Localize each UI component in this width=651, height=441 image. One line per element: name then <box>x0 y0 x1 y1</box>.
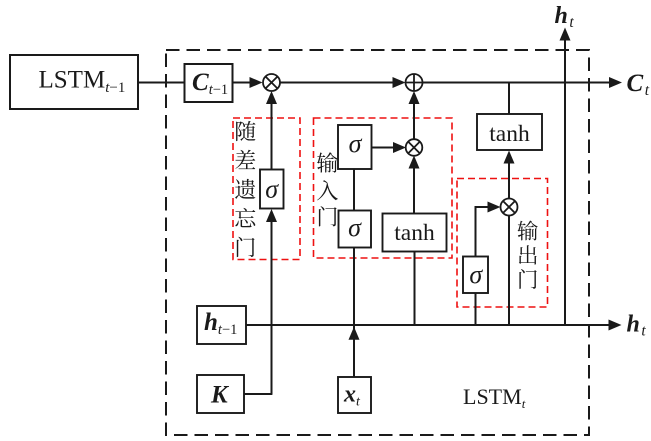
wire K junction up to forget sigma (arrow into sigma) <box>266 209 277 394</box>
box x_t <box>338 377 371 413</box>
box LSTM_{t-1} <box>10 55 138 109</box>
wire h line to h_t output (arrow) <box>246 320 622 331</box>
box tanh top <box>477 114 542 150</box>
wire output multiplier down to h line <box>508 216 510 326</box>
wire C_{t-1} to forget multiplier (arrow) <box>233 77 263 88</box>
svg-text:LSTMt: LSTMt <box>463 384 526 411</box>
svg-text:σ: σ <box>348 213 362 242</box>
box K <box>197 375 244 413</box>
wire tanh up to input multiplier (arrow) <box>409 156 420 214</box>
box sigma forget gate <box>260 170 284 209</box>
wire input tanh down to h line <box>414 251 416 325</box>
red dashed box: input gate (输入门) <box>314 118 453 258</box>
wire adder to C_t output (arrow) <box>423 77 623 88</box>
wire x_t up through h line to sigma2 (arrow at h line) <box>349 247 360 377</box>
label 随差遗忘门 (residual forget gate, vertical) <box>235 121 255 257</box>
multiplier node forget gate (⊗) <box>263 74 280 91</box>
wire output sigma up and right to output multiplier (arrow) <box>476 202 501 257</box>
adder node (⊕) <box>406 74 423 91</box>
wire output sigma down to h line <box>475 293 477 326</box>
wire sigma2 to sigma1 <box>353 169 355 211</box>
multiplier node output gate (⊗) <box>501 199 518 216</box>
red dashed box: residual forget gate (随差遗忘门) <box>233 118 300 260</box>
wire C line junction down to top tanh <box>508 83 510 115</box>
wire sigma1 to input multiplier (arrow) <box>371 142 406 153</box>
box tanh input gate <box>383 214 447 252</box>
box sigma output gate <box>463 257 488 294</box>
svg-text:K: K <box>210 382 230 409</box>
box h_{t-1} <box>197 306 246 344</box>
svg-text:σ: σ <box>349 129 363 158</box>
svg-text:tanh: tanh <box>489 121 530 147</box>
wire output multiplier up to top tanh (arrow) <box>504 151 515 199</box>
wire forget multiplier to adder (arrow) <box>280 77 406 88</box>
box sigma2 input gate <box>339 211 372 248</box>
wire h_t output vertical (arrow up) <box>560 28 571 326</box>
label 输入门 (input gate, vertical) <box>317 152 338 226</box>
label 输出门 (output gate, vertical) <box>517 220 537 288</box>
box C_{t-1} <box>185 64 233 102</box>
wire LSTM_{t-1} to C_{t-1} <box>138 82 185 84</box>
red dashed box: output gate (输出门) <box>457 179 548 308</box>
svg-text:σ: σ <box>265 175 279 204</box>
wire forget sigma up to forget multiplier (arrow) <box>266 91 277 170</box>
wire input multiplier up to adder (arrow) <box>409 91 420 140</box>
svg-text:tanh: tanh <box>394 220 435 246</box>
box sigma1 input gate <box>338 125 372 169</box>
svg-text:σ: σ <box>469 260 483 289</box>
outer dashed boundary of LSTM_t cell <box>166 50 589 435</box>
multiplier node input gate (⊗) <box>406 139 423 156</box>
wire K to forget branch <box>244 393 273 395</box>
